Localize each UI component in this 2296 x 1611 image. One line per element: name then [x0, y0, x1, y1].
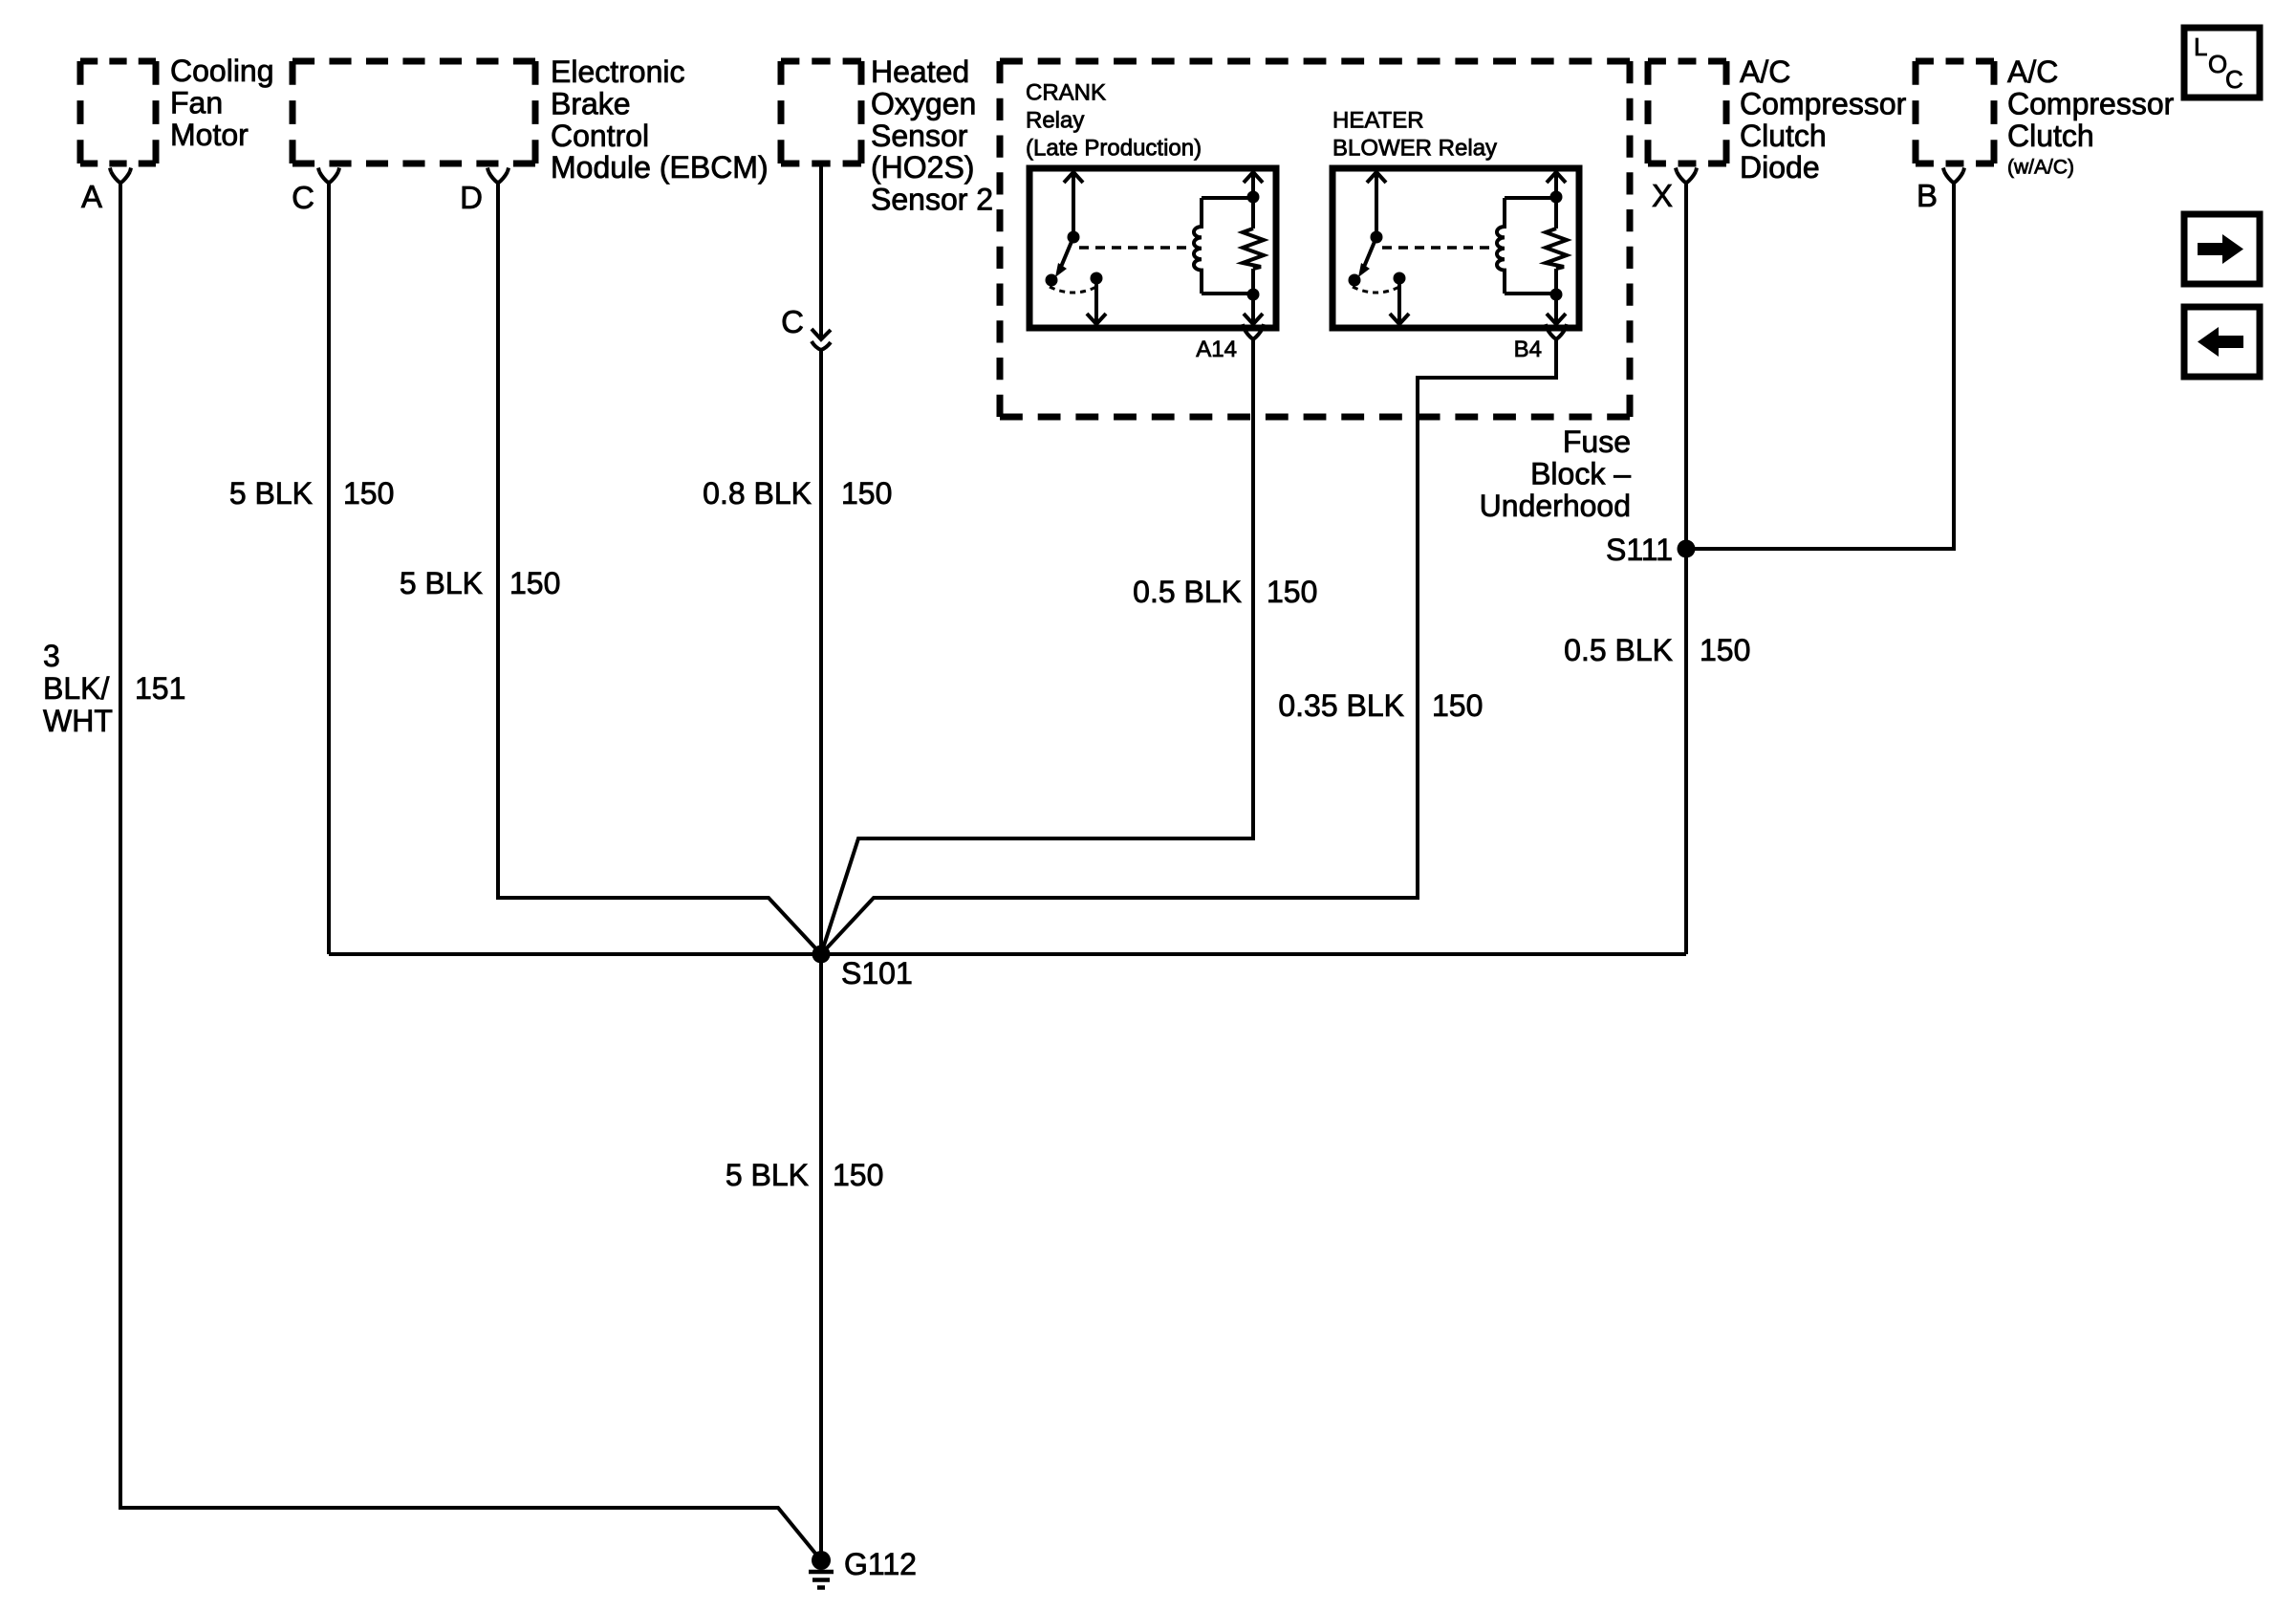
svg-text:150: 150 — [1432, 688, 1483, 723]
svg-text:Motor: Motor — [170, 118, 249, 152]
svg-text:WHT: WHT — [43, 704, 113, 738]
svg-text:(HO2S): (HO2S) — [871, 150, 974, 185]
relay HEATER BLOWER switch blade with arrowhead — [1358, 237, 1376, 277]
svg-text:0.5 BLK: 0.5 BLK — [1564, 633, 1673, 667]
relay CRANK coil — [1194, 198, 1202, 294]
label: Cooling Fan Motor — [170, 54, 274, 152]
relay CRANK switch pivot dot — [1068, 231, 1080, 244]
relay HEATER BLOWER switch common terminal (arrow up) — [1367, 171, 1386, 237]
component box: Heated Oxygen Sensor (HO2S) Sensor 2 — [781, 61, 861, 163]
nav icon: arrow right — [2184, 214, 2260, 284]
component box: A/C Compressor Clutch (w/A/C) — [1916, 61, 1994, 163]
svg-text:Module (EBCM): Module (EBCM) — [551, 150, 769, 185]
relay HEATER BLOWER contact travel dashed arc — [1353, 287, 1399, 293]
svg-text:A: A — [81, 179, 102, 214]
pin B4 fork — [1546, 324, 1567, 339]
svg-text:0.35 BLK: 0.35 BLK — [1278, 688, 1404, 723]
svg-text:3: 3 — [43, 639, 60, 673]
svg-text:Oxygen: Oxygen — [871, 86, 976, 120]
relay CRANK coil top link — [1202, 196, 1253, 200]
wire label 3 BLK/WHT — [43, 639, 113, 738]
svg-text:Fuse: Fuse — [1563, 425, 1631, 459]
relay CRANK NC contact dot — [1091, 272, 1103, 285]
in-line connector C arrowhead — [812, 329, 831, 339]
label: A/C Compressor Clutch Diode — [1740, 54, 1907, 185]
svg-text:(w/A/C): (w/A/C) — [2007, 157, 2074, 179]
label: A/C Compressor Clutch (w/A/C) — [2007, 54, 2175, 153]
svg-text:B: B — [1917, 178, 1938, 213]
svg-text:A14: A14 — [1196, 337, 1237, 362]
svg-text:BLOWER Relay: BLOWER Relay — [1332, 136, 1497, 162]
svg-text:Compressor: Compressor — [2007, 86, 2175, 120]
relay CRANK rail top junction dot — [1247, 191, 1260, 204]
svg-text:C: C — [292, 180, 314, 215]
nav icon: arrow left — [2184, 307, 2260, 377]
wire: 0.5 BLK 150 from A14 to S101 — [821, 339, 1253, 954]
relay HEATER BLOWER actuation dashed link — [1382, 246, 1496, 250]
in-line connector C fork — [812, 341, 831, 350]
svg-text:Compressor: Compressor — [1740, 86, 1907, 120]
svg-text:Sensor 2: Sensor 2 — [871, 183, 993, 217]
svg-text:A/C: A/C — [1740, 54, 1790, 89]
wire: 3 BLK/WHT 151 from Cooling Fan Motor pin A to G112 — [120, 184, 821, 1561]
svg-text:BLK/: BLK/ — [43, 671, 109, 706]
relay HEATER BLOWER NC terminal (arrow down) — [1390, 278, 1409, 324]
svg-text:150: 150 — [841, 476, 892, 511]
relay CRANK rail bottom junction dot — [1247, 289, 1260, 301]
wire: from clutch pin B to S111 — [1686, 184, 1954, 550]
svg-text:CRANK: CRANK — [1026, 80, 1106, 106]
wire: 0.8 BLK 150 trunk from connector C through S101 to G112 — [819, 350, 823, 1560]
relay HEATER BLOWER rail bottom junction dot — [1550, 289, 1563, 301]
relay CRANK contact travel dashed arc — [1050, 287, 1096, 293]
svg-text:Underhood: Underhood — [1480, 489, 1631, 523]
relay HEATER BLOWER NO contact dot — [1349, 274, 1361, 287]
pin D fork of EBCM — [487, 168, 509, 184]
wire: HO2S pigtail upper segment — [819, 163, 823, 337]
pin X fork — [1676, 168, 1697, 184]
relay CRANK actuation dashed link — [1079, 246, 1193, 250]
relay CRANK coil terminal rail (arrow up) — [1244, 171, 1263, 229]
relay HEATER BLOWER coil — [1497, 198, 1505, 294]
svg-text:A/C: A/C — [2007, 54, 2058, 89]
svg-text:G112: G112 — [844, 1547, 917, 1581]
wire: 5 BLK 150 from EBCM pin D to S101 — [498, 184, 821, 955]
wire: 5 BLK 150 from EBCM pin C to S101 — [327, 184, 331, 955]
svg-text:Heated: Heated — [871, 54, 969, 89]
label: Electronic Brake Control Module (EBCM) — [551, 54, 769, 185]
splice S111 — [1678, 540, 1696, 558]
svg-text:150: 150 — [1700, 633, 1750, 667]
svg-text:C: C — [2225, 65, 2243, 94]
svg-text:Brake: Brake — [551, 86, 631, 120]
label: Fuse Block - Underhood — [1480, 425, 1632, 523]
svg-text:Clutch: Clutch — [2007, 119, 2094, 153]
svg-text:Electronic: Electronic — [551, 54, 685, 89]
relay CRANK coil bottom link — [1202, 292, 1253, 295]
svg-text:S101: S101 — [841, 956, 913, 991]
svg-text:150: 150 — [343, 476, 394, 511]
svg-text:0.8 BLK: 0.8 BLK — [703, 476, 812, 511]
label: HEATER BLOWER Relay — [1332, 108, 1497, 162]
svg-text:151: 151 — [135, 671, 185, 706]
relay HEATER BLOWER coil terminal rail (arrow up) — [1547, 171, 1566, 229]
relay CRANK NO contact dot — [1046, 274, 1058, 287]
LOC legend icon — [2184, 28, 2260, 98]
svg-text:Control: Control — [551, 119, 649, 153]
relay HEATER BLOWER coil bottom link — [1505, 292, 1556, 295]
pin A14 fork — [1243, 324, 1264, 339]
label: Heated Oxygen Sensor (HO2S) Sensor 2 — [871, 54, 993, 217]
svg-text:(Late Production): (Late Production) — [1026, 136, 1202, 162]
svg-text:150: 150 — [833, 1158, 883, 1192]
relay HEATER BLOWER rail lower segment (arrow down) — [1547, 269, 1566, 324]
relay CRANK rail lower segment (arrow down) — [1244, 269, 1263, 324]
relay HEATER BLOWER rail top junction dot — [1550, 191, 1563, 204]
main ground bus wire at S101 level — [329, 952, 1686, 956]
svg-text:5 BLK: 5 BLK — [229, 476, 313, 511]
component box: Electronic Brake Control Module (EBCM) — [292, 61, 535, 163]
relay CRANK resistor — [1243, 229, 1264, 269]
wire: 0.35 BLK 150 from B4 to S101 — [821, 339, 1556, 954]
relay CRANK switch common terminal (arrow up) — [1064, 171, 1083, 237]
relay CRANK NC terminal (arrow down) — [1087, 278, 1106, 324]
svg-text:Sensor: Sensor — [871, 119, 968, 153]
relay HEATER BLOWER resistor — [1546, 229, 1567, 269]
svg-text:0.5 BLK: 0.5 BLK — [1133, 575, 1242, 609]
svg-text:5 BLK: 5 BLK — [726, 1158, 809, 1192]
svg-text:150: 150 — [509, 566, 560, 600]
relay HEATER BLOWER NC contact dot — [1394, 272, 1406, 285]
pin C fork of EBCM — [318, 168, 339, 184]
relay CRANK switch blade with arrowhead — [1055, 237, 1073, 277]
svg-text:D: D — [460, 180, 483, 215]
wire: 0.5 BLK 150 from diode pin X through S111 to ground bus — [1684, 184, 1688, 955]
pin B fork — [1943, 168, 1964, 184]
ground G112 dot — [812, 1551, 831, 1570]
component box: Fuse Block - Underhood — [1000, 61, 1630, 417]
relay HEATER BLOWER coil top link — [1505, 196, 1556, 200]
svg-text:C: C — [781, 304, 804, 339]
pin A fork of Cooling Fan Motor — [110, 168, 131, 184]
svg-text:X: X — [1652, 178, 1673, 213]
svg-text:Fan: Fan — [170, 85, 223, 120]
svg-text:Diode: Diode — [1740, 150, 1820, 185]
svg-text:Cooling: Cooling — [170, 54, 274, 88]
label: CRANK Relay (Late Production) — [1026, 80, 1202, 162]
svg-text:5 BLK: 5 BLK — [400, 566, 483, 600]
svg-text:Relay: Relay — [1026, 108, 1084, 134]
splice S101 — [812, 946, 831, 964]
component box: A/C Compressor Clutch Diode — [1648, 61, 1726, 163]
relay HEATER BLOWER case — [1332, 168, 1579, 328]
svg-text:B4: B4 — [1514, 337, 1542, 362]
relay HEATER BLOWER switch pivot dot — [1371, 231, 1383, 244]
relay CRANK case — [1029, 168, 1276, 328]
svg-text:150: 150 — [1267, 575, 1317, 609]
svg-text:L: L — [2194, 33, 2207, 61]
svg-text:S111: S111 — [1606, 533, 1673, 567]
svg-text:Block –: Block – — [1530, 456, 1631, 490]
svg-text:HEATER: HEATER — [1332, 108, 1424, 134]
ground G112 symbol bars — [809, 1572, 834, 1588]
svg-text:Clutch: Clutch — [1740, 119, 1827, 153]
component box: Cooling Fan Motor — [80, 61, 156, 163]
